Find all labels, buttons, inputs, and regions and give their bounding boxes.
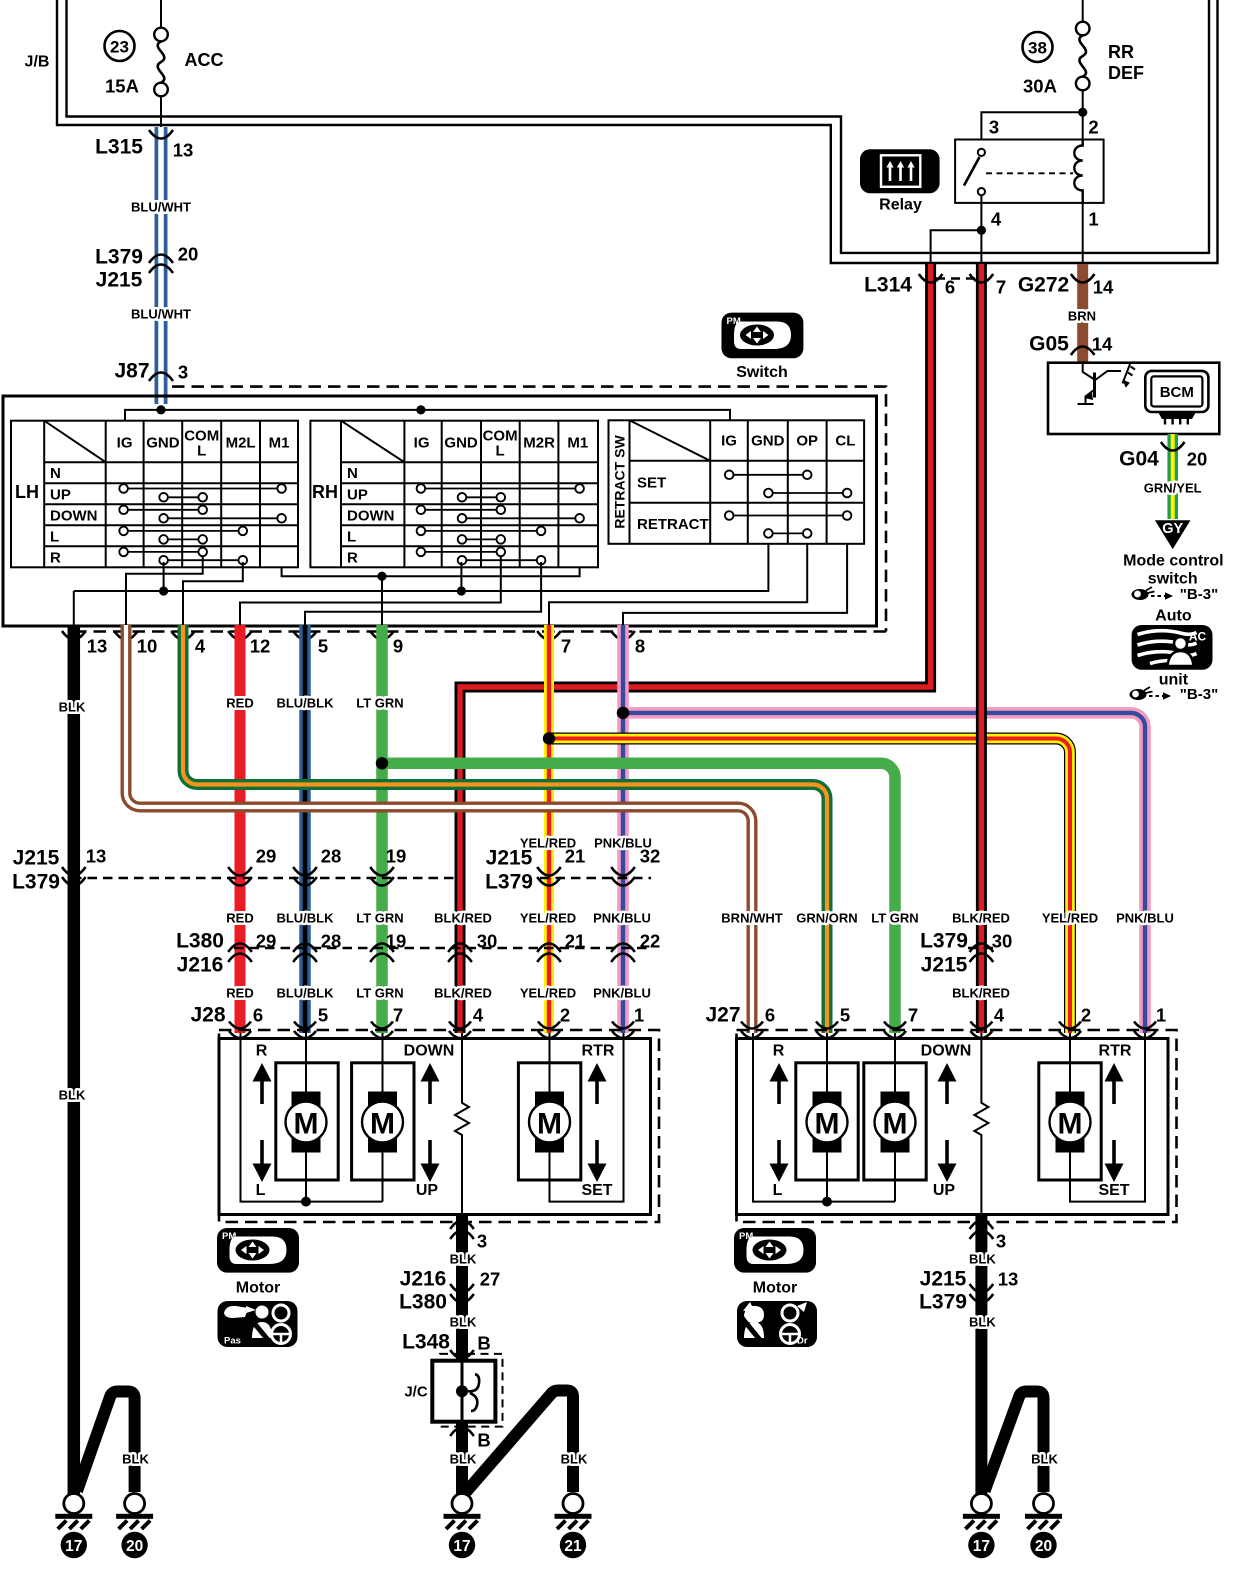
svg-text:PNK/BLU: PNK/BLU xyxy=(593,911,651,926)
svg-text:13: 13 xyxy=(173,140,194,161)
wire BRN G272-14 xyxy=(1077,264,1088,362)
svg-text:BLU/BLK: BLU/BLK xyxy=(276,911,334,926)
svg-text:"B-3": "B-3" xyxy=(1180,586,1218,603)
motor M6 symbol xyxy=(1050,1092,1091,1153)
svg-text:GND: GND xyxy=(146,435,180,452)
arrows RTR/SET column xyxy=(588,1063,607,1182)
svg-text:YEL/RED: YEL/RED xyxy=(520,986,576,1001)
svg-text:G272: G272 xyxy=(1018,274,1069,297)
svg-text:Auto: Auto xyxy=(1155,608,1192,625)
svg-text:4: 4 xyxy=(473,1005,484,1026)
svg-text:2: 2 xyxy=(560,1005,570,1026)
svg-text:L315: L315 xyxy=(95,136,143,159)
svg-text:BLK: BLK xyxy=(122,1452,149,1467)
connector pin chevrons xyxy=(62,631,635,640)
svg-text:BCM: BCM xyxy=(1160,384,1194,401)
svg-text:RTR: RTR xyxy=(1099,1043,1132,1060)
svg-text:UP: UP xyxy=(416,1182,439,1199)
wire BLK branch to ground 20 right xyxy=(985,1392,1044,1493)
svg-text:BLU/BLK: BLU/BLK xyxy=(276,986,334,1001)
wire motor1 right terminals xyxy=(826,1033,828,1202)
node junction dot motor1 bottom xyxy=(301,1197,311,1207)
svg-text:22: 22 xyxy=(640,931,661,952)
svg-text:20: 20 xyxy=(126,1538,143,1555)
svg-text:N: N xyxy=(50,465,61,482)
svg-text:Motor: Motor xyxy=(236,1280,280,1297)
svg-text:AC: AC xyxy=(1189,630,1207,644)
node junction dot RH IG feed xyxy=(416,405,425,414)
node junction dot PNK/BLU xyxy=(617,707,629,719)
svg-text:4: 4 xyxy=(991,209,1002,230)
connector J28 chevrons xyxy=(229,1022,634,1039)
node junction dot M1 bus xyxy=(377,572,386,581)
svg-text:M: M xyxy=(883,1108,908,1141)
ground 17 center xyxy=(444,1494,481,1559)
motor M1 symbol xyxy=(286,1092,327,1153)
svg-text:R: R xyxy=(773,1043,785,1060)
svg-text:M1: M1 xyxy=(269,435,290,452)
table RETRACT SW grid xyxy=(609,420,865,544)
svg-text:RETRACT SW: RETRACT SW xyxy=(612,435,628,529)
svg-text:CL: CL xyxy=(835,433,855,450)
svg-text:BLK: BLK xyxy=(59,700,86,715)
node J/C junction dot xyxy=(456,1385,468,1397)
svg-text:21: 21 xyxy=(565,931,586,952)
wire PNK/BLU pin1 left xyxy=(617,625,629,1033)
svg-text:19: 19 xyxy=(386,846,407,867)
svg-text:7: 7 xyxy=(393,1005,403,1026)
svg-text:30: 30 xyxy=(992,931,1013,952)
motor box right solid border xyxy=(737,1039,1169,1215)
svg-text:PNK/BLU: PNK/BLU xyxy=(593,986,651,1001)
svg-text:7: 7 xyxy=(561,636,571,657)
ground 17 right xyxy=(963,1494,1000,1559)
svg-text:29: 29 xyxy=(256,931,277,952)
svg-text:R: R xyxy=(50,549,61,566)
wire relay pin1 down xyxy=(1082,203,1084,263)
svg-text:G05: G05 xyxy=(1029,333,1069,356)
svg-text:Motor: Motor xyxy=(753,1280,797,1297)
wire PNK/BLU horizontal branch xyxy=(623,713,1145,1033)
svg-text:M: M xyxy=(370,1108,395,1141)
wire BRN/WHT common run right xyxy=(753,1033,895,1202)
svg-text:29: 29 xyxy=(256,846,277,867)
resistor left box xyxy=(455,1033,469,1214)
wire motor2 terminals xyxy=(382,1033,384,1202)
svg-text:L: L xyxy=(197,443,206,460)
motor box right dashed border xyxy=(737,1030,1177,1222)
svg-text:6: 6 xyxy=(765,1005,775,1026)
wire YEL/RED pin2 left xyxy=(544,625,554,1033)
svg-text:M1: M1 xyxy=(567,435,588,452)
wire YEL/RED horizontal branch xyxy=(549,739,1070,1034)
svg-text:23: 23 xyxy=(110,38,129,57)
svg-text:GRN/YEL: GRN/YEL xyxy=(1144,481,1202,496)
svg-text:DEF: DEF xyxy=(1108,63,1144,83)
wire GRN/YEL G04 xyxy=(1167,434,1178,519)
svg-text:SET: SET xyxy=(581,1182,612,1199)
svg-text:J215: J215 xyxy=(920,1268,967,1291)
svg-text:21: 21 xyxy=(565,846,586,867)
svg-text:Mode control: Mode control xyxy=(1123,553,1223,570)
svg-text:L379: L379 xyxy=(485,871,533,894)
svg-text:BLU/WHT: BLU/WHT xyxy=(131,200,191,215)
svg-text:Dr: Dr xyxy=(797,1336,808,1347)
wire BLK J28-3 down xyxy=(456,1214,468,1361)
svg-text:3: 3 xyxy=(989,117,999,138)
motor M3 cell xyxy=(518,1063,580,1180)
svg-text:4: 4 xyxy=(195,636,206,657)
wire motor3 right terminals + PNK/BLU return xyxy=(1070,1033,1145,1202)
svg-text:17: 17 xyxy=(65,1538,82,1555)
node junction dot YEL/RED xyxy=(543,732,555,744)
svg-text:L380: L380 xyxy=(399,1291,447,1314)
svg-text:L: L xyxy=(256,1182,266,1199)
wire BLK branch to ground 21 xyxy=(466,1391,573,1493)
svg-text:17: 17 xyxy=(453,1538,470,1555)
relay icon xyxy=(860,149,940,193)
svg-text:7: 7 xyxy=(996,277,1006,298)
A/C unit icon xyxy=(1132,625,1213,670)
arrows DOWN/UP column right xyxy=(938,1063,957,1182)
connector J216/L380 chevrons xyxy=(450,1284,474,1303)
svg-text:RTR: RTR xyxy=(582,1043,615,1060)
svg-text:RED: RED xyxy=(226,986,253,1001)
svg-text:YEL/RED: YEL/RED xyxy=(520,911,576,926)
resistor right box xyxy=(974,1033,988,1214)
wire BLK/RED left L314-6 branch xyxy=(460,264,931,1033)
svg-text:7: 7 xyxy=(908,1005,918,1026)
svg-text:LT GRN: LT GRN xyxy=(356,696,403,711)
wire relay pin4 down xyxy=(980,195,982,263)
wire BLK pin13 to ground xyxy=(68,625,81,1494)
svg-text:RH: RH xyxy=(312,482,338,502)
svg-text:12: 12 xyxy=(250,636,271,657)
transistor U1 xyxy=(1078,363,1122,404)
svg-text:BLK: BLK xyxy=(1031,1452,1058,1467)
svg-text:6: 6 xyxy=(945,277,955,298)
connector L379/J215 double chevron xyxy=(149,255,173,274)
connector L348 chevron xyxy=(450,1350,474,1359)
svg-text:L: L xyxy=(773,1182,783,1199)
table LH contacts UP row xyxy=(124,489,282,561)
junction connector J/C dashed shadow xyxy=(440,1354,503,1427)
wire BLK below J/C xyxy=(456,1422,468,1494)
svg-text:BLU/WHT: BLU/WHT xyxy=(131,307,191,322)
wire LT GRN horizontal branch xyxy=(382,763,895,1033)
connector J87 chevron xyxy=(149,373,173,382)
svg-text:LT GRN: LT GRN xyxy=(871,911,918,926)
connector L315 chevron xyxy=(149,130,173,139)
svg-text:2: 2 xyxy=(1081,1005,1091,1026)
svg-text:38: 38 xyxy=(1028,39,1047,58)
motor box left solid border xyxy=(219,1039,651,1215)
svg-text:Relay: Relay xyxy=(879,197,922,214)
svg-text:6: 6 xyxy=(253,1005,263,1026)
svg-text:J215: J215 xyxy=(921,954,968,977)
svg-text:GRN/ORN: GRN/ORN xyxy=(796,911,857,926)
relay dashed actuation line xyxy=(986,172,1073,174)
motor M6 cell xyxy=(1039,1063,1101,1180)
svg-text:L379: L379 xyxy=(919,1291,967,1314)
svg-text:1: 1 xyxy=(634,1005,644,1026)
svg-text:M2L: M2L xyxy=(226,435,256,452)
svg-text:L: L xyxy=(347,528,356,545)
svg-text:BLK/RED: BLK/RED xyxy=(952,911,1010,926)
wire motor2 right terminals xyxy=(894,1033,896,1202)
table RH switch grid xyxy=(310,421,598,568)
motor M2 symbol xyxy=(362,1092,403,1153)
svg-text:BLK: BLK xyxy=(561,1452,588,1467)
wire LT GRN pin9 to J28-7 xyxy=(376,625,388,1033)
svg-text:RR: RR xyxy=(1108,42,1134,62)
svg-text:BLK: BLK xyxy=(969,1315,996,1330)
svg-text:BLK: BLK xyxy=(450,1315,477,1330)
svg-text:J216: J216 xyxy=(177,954,224,977)
fuse 38 RR DEF symbol xyxy=(1076,0,1090,140)
svg-text:27: 27 xyxy=(480,1269,501,1290)
svg-text:20: 20 xyxy=(1187,449,1208,470)
svg-text:RED: RED xyxy=(226,696,253,711)
fuse 23 ACC symbol xyxy=(154,0,168,128)
motor box left dashed border xyxy=(219,1030,659,1222)
svg-text:R: R xyxy=(256,1043,268,1060)
motor M4 cell xyxy=(796,1063,858,1180)
svg-text:BLK: BLK xyxy=(59,1088,86,1103)
motor M4 symbol xyxy=(807,1092,848,1153)
svg-text:UP: UP xyxy=(50,486,71,503)
svg-text:30A: 30A xyxy=(1023,76,1057,97)
svg-text:M2R: M2R xyxy=(523,435,555,452)
svg-text:RETRACT: RETRACT xyxy=(637,516,709,533)
wire BLU/WHT L315-J87 xyxy=(155,127,168,404)
ground 20 right xyxy=(1025,1494,1062,1559)
svg-text:L379: L379 xyxy=(920,930,968,953)
wire J/B bus outer line xyxy=(57,0,1218,263)
svg-text:5: 5 xyxy=(318,1005,328,1026)
svg-text:14: 14 xyxy=(1092,334,1113,355)
arrows R/L column xyxy=(253,1063,272,1182)
svg-text:GY: GY xyxy=(1162,521,1183,537)
wire BLK branch to ground 20 xyxy=(77,1392,135,1493)
svg-text:J28: J28 xyxy=(190,1004,225,1027)
svg-text:9: 9 xyxy=(393,636,403,657)
svg-text:5: 5 xyxy=(840,1005,850,1026)
svg-text:M: M xyxy=(815,1108,840,1141)
svg-text:L379: L379 xyxy=(12,871,60,894)
wire relay pin3 link xyxy=(981,112,1082,139)
relay switch contact xyxy=(964,149,985,195)
wire IG feed line xyxy=(125,410,730,421)
connector B chevron below J/C xyxy=(450,1428,474,1437)
svg-text:IG: IG xyxy=(414,435,430,452)
svg-text:M: M xyxy=(1058,1108,1083,1141)
svg-text:3: 3 xyxy=(996,1231,1006,1252)
wire RH M2R to pin5 xyxy=(305,562,541,627)
svg-text:J215: J215 xyxy=(13,847,60,870)
wire BLU/BLK pin5 to J28-5 xyxy=(299,625,311,1033)
svg-text:SET: SET xyxy=(1098,1182,1129,1199)
svg-text:13: 13 xyxy=(998,1269,1019,1290)
svg-text:YEL/RED: YEL/RED xyxy=(1042,911,1098,926)
motor M3 symbol xyxy=(529,1092,570,1153)
svg-text:10: 10 xyxy=(137,636,158,657)
svg-text:28: 28 xyxy=(321,931,342,952)
arrows DOWN/UP column xyxy=(421,1063,440,1182)
arrows R/L column right xyxy=(770,1063,789,1182)
svg-text:OP: OP xyxy=(796,433,818,450)
connector G05 xyxy=(1071,347,1095,356)
pointer hand icon 1 xyxy=(1132,587,1174,600)
svg-text:SET: SET xyxy=(637,475,666,492)
Pas mirror icon left xyxy=(218,1301,298,1347)
svg-text:J/B: J/B xyxy=(25,54,50,71)
svg-text:"B-3": "B-3" xyxy=(1180,686,1218,703)
svg-text:32: 32 xyxy=(640,846,661,867)
wire motor3 terminals + PNK/BLU return xyxy=(550,1033,624,1202)
arrows RTR/SET column right xyxy=(1105,1063,1124,1182)
wire BRN/WHT pin10 branch xyxy=(126,625,752,1033)
svg-text:L348: L348 xyxy=(402,1331,450,1354)
wire M1 bus to pin9 xyxy=(282,567,580,626)
svg-text:M: M xyxy=(537,1108,562,1141)
svg-text:GND: GND xyxy=(751,433,785,450)
svg-text:L: L xyxy=(50,528,59,545)
wire RETRACT CL to pin8 xyxy=(623,544,847,627)
svg-text:14: 14 xyxy=(1093,277,1114,298)
svg-text:1: 1 xyxy=(1088,209,1098,230)
node junction dot LT GRN xyxy=(376,757,388,769)
connector J28-3 chevrons xyxy=(450,1221,474,1240)
wire J/B bus inner line xyxy=(67,0,1210,253)
wire BLK J27-3 down xyxy=(975,1214,987,1495)
svg-text:BLK: BLK xyxy=(969,1252,996,1267)
node junction dot BLU/WHT feed xyxy=(156,405,165,414)
ground 17 left xyxy=(55,1494,92,1559)
motor M1 cell xyxy=(276,1063,338,1180)
connector G04 chevron xyxy=(1161,442,1185,451)
table RH contacts xyxy=(421,489,580,561)
svg-text:28: 28 xyxy=(321,846,342,867)
wire RED pin12 to J28-6 xyxy=(235,625,246,1033)
svg-text:BLK: BLK xyxy=(450,1452,477,1467)
svg-text:IG: IG xyxy=(117,435,133,452)
svg-text:L379: L379 xyxy=(95,246,143,269)
table RETRACT contacts xyxy=(729,475,847,534)
svg-text:BLU/BLK: BLU/BLK xyxy=(276,696,334,711)
connector J27-3 chevrons xyxy=(970,1221,994,1240)
svg-text:13: 13 xyxy=(86,846,107,867)
svg-text:13: 13 xyxy=(87,636,108,657)
svg-text:30: 30 xyxy=(477,931,498,952)
connector J27 chevrons xyxy=(741,1022,1156,1039)
motor M5 symbol xyxy=(875,1092,916,1153)
relay box xyxy=(955,140,1104,203)
svg-text:DOWN: DOWN xyxy=(404,1043,455,1060)
node junction dot motor1 right bottom xyxy=(822,1197,832,1207)
wire LH COML to pin10 xyxy=(126,556,203,627)
svg-text:5: 5 xyxy=(318,636,328,657)
svg-text:15A: 15A xyxy=(105,76,139,97)
J/C squiggle xyxy=(468,1374,479,1411)
wire motor1 terminals xyxy=(305,1033,307,1202)
svg-text:J216: J216 xyxy=(400,1268,447,1291)
svg-text:M: M xyxy=(294,1108,319,1141)
svg-text:8: 8 xyxy=(635,636,645,657)
svg-text:GND: GND xyxy=(444,435,478,452)
node junction dot pin4 xyxy=(977,226,986,235)
svg-text:B: B xyxy=(477,1333,490,1354)
wire through J/C xyxy=(461,1361,464,1422)
svg-text:G04: G04 xyxy=(1119,448,1159,471)
svg-text:B: B xyxy=(477,1430,490,1451)
svg-text:3: 3 xyxy=(178,362,188,383)
svg-text:N: N xyxy=(347,465,358,482)
svg-text:21: 21 xyxy=(564,1538,582,1555)
svg-text:R: R xyxy=(347,549,358,566)
svg-text:1: 1 xyxy=(1156,1005,1166,1026)
svg-text:Pas: Pas xyxy=(224,1336,241,1347)
svg-text:3: 3 xyxy=(477,1231,487,1252)
svg-text:RED: RED xyxy=(226,911,253,926)
svg-text:LH: LH xyxy=(15,482,39,502)
svg-text:20: 20 xyxy=(1035,1538,1052,1555)
svg-text:J215: J215 xyxy=(486,847,533,870)
svg-text:DOWN: DOWN xyxy=(50,507,98,524)
svg-text:LT GRN: LT GRN xyxy=(356,911,403,926)
svg-text:UP: UP xyxy=(347,486,368,503)
svg-text:IG: IG xyxy=(721,433,737,450)
switch solid border xyxy=(3,396,877,626)
svg-text:BLK/RED: BLK/RED xyxy=(434,911,492,926)
svg-text:J27: J27 xyxy=(705,1004,740,1027)
ground 21 center xyxy=(555,1494,592,1559)
connector J215/L379 chevrons right xyxy=(970,1284,994,1303)
table LH switch grid xyxy=(11,421,298,568)
GY destination arrow xyxy=(1155,520,1191,549)
svg-text:BRN: BRN xyxy=(1068,309,1096,324)
svg-text:switch: switch xyxy=(1148,571,1198,588)
svg-text:UP: UP xyxy=(933,1182,956,1199)
wire LH M2L to pin4 xyxy=(183,562,243,627)
fuse 38 circled number xyxy=(1023,32,1053,62)
pointer hand icon 2 xyxy=(1130,687,1172,700)
svg-text:LT GRN: LT GRN xyxy=(356,986,403,1001)
wire RETRACT OP to pin7 xyxy=(549,544,807,627)
node junction dot RH GND xyxy=(457,586,466,595)
wire LH GND to BLK pin13 xyxy=(74,544,769,627)
wire pin4 branch left xyxy=(931,230,982,263)
motor M2 cell xyxy=(352,1063,414,1180)
svg-text:BLK/RED: BLK/RED xyxy=(952,986,1010,1001)
svg-text:BLK: BLK xyxy=(450,1252,477,1267)
Dr mirror icon right xyxy=(737,1301,817,1347)
junction connector J/C box xyxy=(432,1361,495,1422)
svg-text:L314: L314 xyxy=(864,274,912,297)
wire RH COML to pin12 xyxy=(240,556,501,627)
svg-text:17: 17 xyxy=(973,1538,990,1555)
svg-text:4: 4 xyxy=(994,1005,1005,1026)
svg-text:DOWN: DOWN xyxy=(921,1043,972,1060)
svg-text:Switch: Switch xyxy=(736,364,788,381)
svg-text:20: 20 xyxy=(178,244,199,265)
BCM monitor icon xyxy=(1145,371,1208,425)
svg-text:L: L xyxy=(496,443,505,460)
fuse 23 circled number xyxy=(105,31,135,61)
node junction dot fuse38/pin3 xyxy=(1078,108,1087,117)
switch dashed border xyxy=(70,387,886,632)
svg-text:J/C: J/C xyxy=(404,1384,428,1401)
